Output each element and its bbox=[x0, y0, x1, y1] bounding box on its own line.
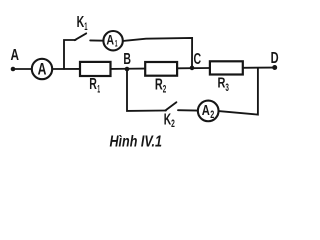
node A terminal dot bbox=[11, 67, 16, 72]
switch K2 blade bbox=[165, 102, 176, 110]
node C junction dot bbox=[190, 66, 195, 71]
svg-text:2: 2 bbox=[210, 109, 214, 121]
wire node B drop down and to switch K2 bbox=[127, 69, 166, 111]
svg-text:A: A bbox=[38, 60, 47, 78]
svg-text:B: B bbox=[123, 51, 131, 68]
svg-text:1: 1 bbox=[97, 84, 100, 96]
resistor R3 body bbox=[210, 61, 243, 74]
svg-text:2: 2 bbox=[171, 118, 175, 130]
svg-text:3: 3 bbox=[225, 82, 229, 94]
wire A to ammeter bbox=[14, 68, 32, 70]
svg-text:A: A bbox=[106, 31, 114, 47]
node D terminal dot bbox=[272, 65, 277, 70]
switch K1 blade bbox=[75, 33, 87, 40]
ammeter A1 circle bbox=[103, 31, 122, 50]
svg-text:A: A bbox=[11, 47, 20, 64]
svg-text:D: D bbox=[271, 50, 279, 67]
wire A2 to right corner and riser up to main line bbox=[219, 68, 258, 115]
svg-text:R: R bbox=[155, 76, 163, 93]
resistor R2 body bbox=[145, 62, 177, 76]
svg-text:1: 1 bbox=[115, 38, 118, 49]
wire K2 contact to ammeter A2 bbox=[178, 109, 198, 111]
node B junction dot bbox=[125, 67, 130, 72]
wire R2 to R3 through node C bbox=[177, 67, 210, 69]
svg-text:R: R bbox=[218, 74, 226, 91]
wire riser up to top branch and to switch K1 bbox=[64, 40, 76, 69]
wire R1 to R2 through node B bbox=[111, 68, 146, 70]
svg-text:K: K bbox=[164, 111, 171, 128]
wire K1 contact to ammeter A1 bbox=[90, 39, 103, 41]
resistor R1 body bbox=[80, 62, 111, 76]
wire A1 to corner and drop to node C bbox=[123, 38, 192, 67]
svg-text:A: A bbox=[202, 103, 210, 119]
ammeter A circle bbox=[32, 59, 52, 79]
ammeter A2 circle bbox=[198, 101, 219, 122]
wire ammeter to R1 with riser junction bbox=[52, 68, 80, 70]
svg-text:R: R bbox=[89, 76, 97, 93]
svg-text:Hình IV.1: Hình IV.1 bbox=[110, 133, 163, 150]
svg-text:1: 1 bbox=[84, 21, 87, 33]
svg-text:2: 2 bbox=[163, 84, 167, 96]
wire R3 to D with right riser junction bbox=[243, 67, 273, 69]
svg-text:C: C bbox=[194, 51, 202, 68]
